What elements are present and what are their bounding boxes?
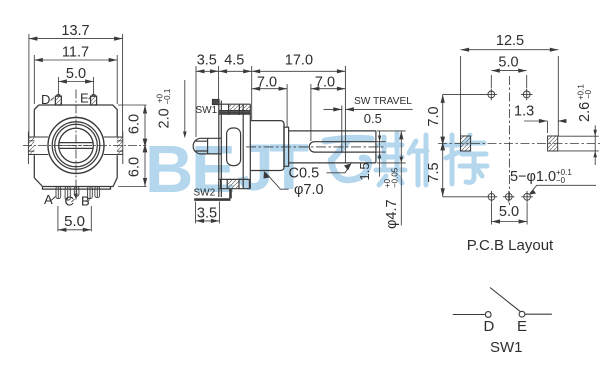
bottom bent pin [194, 189, 230, 200]
sw1 right lead [525, 313, 552, 315]
collar ring [284, 127, 289, 166]
svg-text:E: E [80, 91, 89, 106]
svg-text:5.0: 5.0 [64, 213, 85, 230]
pin C bottom [74, 187, 79, 197]
front body outline [34, 105, 117, 187]
support leg bottom 2 [95, 187, 100, 198]
bottom skirt [43, 187, 111, 190]
svg-text:6.0: 6.0 [127, 114, 143, 134]
svg-text:1.5: 1.5 [357, 162, 372, 180]
svg-text:SW2: SW2 [194, 188, 216, 199]
dimension 1.5 slot [376, 131, 386, 177]
pin A bottom [56, 187, 61, 199]
svg-text:φ7.0: φ7.0 [294, 182, 324, 198]
dimension 7.0 bushing [252, 84, 287, 127]
svg-text:SW TRAVEL: SW TRAVEL [354, 96, 412, 107]
dimension 12.5 [461, 50, 559, 136]
hole E pcb [521, 89, 533, 101]
watermark BEJT logo [145, 130, 309, 207]
svg-text:7.0: 7.0 [257, 75, 277, 91]
hole A pcb [486, 191, 498, 203]
svg-text:3.5: 3.5 [197, 206, 217, 222]
body face lines [243, 104, 250, 189]
svg-text:5.0: 5.0 [498, 55, 518, 71]
svg-text:3.5: 3.5 [197, 53, 217, 69]
svg-text:6.0: 6.0 [127, 157, 143, 177]
shaft slot [309, 142, 376, 152]
svg-text:SW1: SW1 [196, 105, 218, 116]
dimension 6.0 6.0 right [118, 105, 147, 187]
dimension 7.0 7.5 pcb left [441, 94, 486, 196]
sw1 contact E [519, 311, 525, 317]
dimension 3.5 4.5 17.0 top [196, 66, 345, 137]
svg-text:7.5: 7.5 [426, 162, 442, 182]
support leg bottom [65, 187, 70, 201]
dimension 5.0 top [58, 77, 93, 94]
resin bump [227, 128, 241, 166]
svg-text:5.0: 5.0 [66, 66, 86, 82]
svg-text:−0.05: −0.05 [391, 167, 400, 188]
svg-text:11.7: 11.7 [62, 45, 89, 61]
center pin left [193, 138, 221, 154]
hidden slot dashes [60, 145, 92, 147]
svg-text:7.0: 7.0 [426, 106, 442, 126]
sw1 left lead [453, 314, 485, 316]
svg-text:φ4.7: φ4.7 [384, 199, 400, 229]
dimension 7.0 shaft slot [311, 84, 346, 141]
svg-text:D: D [484, 318, 495, 335]
dimension 3.5 bottom [196, 202, 220, 224]
shaft circle [59, 128, 94, 163]
top bracket SW1 terminal row [219, 104, 251, 110]
svg-text:13.7: 13.7 [61, 23, 89, 39]
svg-text:0.5: 0.5 [364, 111, 382, 126]
svg-text:−0: −0 [584, 89, 593, 99]
svg-text:C0.5: C0.5 [289, 166, 320, 182]
bottom terminal row SW2 [219, 179, 250, 188]
front view centerline horizontal [23, 145, 147, 147]
svg-text:E: E [517, 318, 527, 335]
hole C pcb [503, 191, 515, 203]
pin D top [55, 95, 61, 105]
svg-text:−0: −0 [556, 176, 566, 185]
svg-text:SW1: SW1 [490, 339, 523, 356]
flange circle 2 [55, 124, 98, 167]
flange circle [52, 122, 100, 170]
shaft [289, 131, 376, 163]
pcb center horizontal centerline [438, 143, 600, 145]
shaft centerline [246, 146, 384, 148]
svg-text:−0.1: −0.1 [163, 88, 172, 104]
dimension phi 4.7 shaft [377, 131, 406, 226]
watermark chinese characters [325, 133, 487, 185]
svg-text:4.5: 4.5 [224, 53, 244, 69]
svg-text:1.3: 1.3 [514, 104, 534, 120]
note 5-phi1.0 +0.1 -0 [510, 168, 572, 185]
mounting slot left pcb [461, 136, 471, 151]
front view centerline vertical [75, 90, 77, 198]
svg-text:2.0: 2.0 [157, 108, 173, 128]
svg-text:2.6: 2.6 [577, 102, 593, 122]
hole D pcb [486, 89, 498, 101]
mounting slot right pcb [548, 136, 558, 151]
hole B pcb [521, 191, 533, 203]
svg-text:17.0: 17.0 [285, 53, 313, 69]
dimension 5.0 pcb top [491, 71, 526, 88]
svg-text:B: B [145, 132, 193, 207]
mounting lug left [28, 137, 34, 155]
dimension 2.6 +0.1 -0 slot height [558, 125, 599, 165]
svg-text:7.0: 7.0 [315, 75, 335, 91]
terminal plate [219, 101, 222, 198]
bushing cylinder [250, 121, 284, 171]
mounting lug right [117, 137, 123, 155]
pin E top [91, 95, 97, 105]
dimension 5.0 pcb bottom [492, 203, 528, 225]
bushing circle outer [48, 118, 104, 174]
svg-text:12.5: 12.5 [496, 33, 524, 49]
sw1 contact D [485, 312, 491, 318]
dimension 13.7 [29, 34, 123, 137]
pin B bottom [88, 187, 93, 199]
svg-text:5−φ1.0: 5−φ1.0 [510, 169, 556, 185]
svg-text:P.C.B Layout: P.C.B Layout [467, 237, 554, 254]
dimension 5.0 bottom [58, 206, 91, 231]
dimension 2.0 +0 -0.1 [184, 80, 186, 132]
dimension 1.3 slot width [524, 121, 567, 133]
top bent pin end [213, 100, 220, 105]
shaft slot chords [59, 143, 93, 149]
dimension 11.7 [34, 55, 117, 104]
svg-text:D: D [41, 92, 50, 107]
sw1 lever [490, 288, 521, 312]
svg-text:5.0: 5.0 [499, 204, 519, 220]
pcb center vertical centerline [508, 76, 510, 205]
sw travel lines [342, 66, 346, 163]
